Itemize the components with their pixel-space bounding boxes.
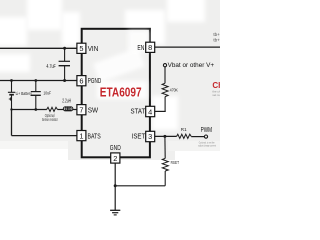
pin 7 box SW bbox=[77, 105, 86, 115]
node junction battery top bbox=[10, 79, 13, 82]
svg-text:RSET: RSET bbox=[171, 160, 180, 165]
pin 2 box GND bbox=[111, 153, 120, 163]
wire left vertical battery to BATS bbox=[11, 110, 13, 136]
svg-text:470K: 470K bbox=[170, 87, 179, 92]
wire PGND bus bbox=[0, 80, 77, 82]
node junction battery bottom bbox=[10, 108, 12, 110]
wire C1 top lead bbox=[64, 48, 66, 61]
pin 4 box STAT bbox=[146, 106, 155, 116]
svg-text:STAT: STAT bbox=[131, 106, 146, 115]
svg-text:R1: R1 bbox=[181, 127, 187, 133]
svg-text:GND: GND bbox=[110, 143, 121, 152]
svg-text:5: 5 bbox=[79, 44, 83, 53]
wire GND pin down bbox=[114, 163, 116, 186]
pin 5 box VIN bbox=[77, 43, 86, 53]
wire Vbat node to R2 bbox=[164, 67, 166, 83]
wire L1 to pin7 bbox=[73, 109, 77, 111]
svg-text:EN: EN bbox=[137, 43, 144, 52]
wire battery bottom lead bbox=[11, 95, 13, 110]
wire C2 bottom lead bbox=[35, 95, 37, 109]
node junction C1 top bbox=[63, 47, 66, 50]
svg-text:4.7uF: 4.7uF bbox=[46, 64, 55, 70]
wire BATS bus bbox=[12, 135, 77, 137]
wire ISET to R1 bbox=[155, 135, 177, 137]
wire C2 top lead bbox=[35, 81, 37, 92]
ground symbol bbox=[110, 210, 120, 215]
resistor RS optional sense bbox=[47, 107, 58, 111]
svg-text:Li+ Battery: Li+ Battery bbox=[16, 91, 33, 96]
wire RSET top lead bbox=[164, 136, 166, 158]
svg-text:PWM: PWM bbox=[201, 125, 212, 134]
svg-text:Vbat or other V+: Vbat or other V+ bbox=[168, 62, 215, 69]
battery BT1 Li+ Battery bbox=[8, 92, 15, 94]
node junction C2 top bbox=[34, 79, 37, 82]
node junction C1 bottom bbox=[63, 79, 66, 82]
wire battery top lead bbox=[11, 81, 13, 93]
svg-text:2: 2 bbox=[113, 154, 117, 163]
node Vbat terminal circle bbox=[163, 64, 166, 67]
svg-text:8: 8 bbox=[148, 43, 152, 52]
node junction RSET top bbox=[163, 135, 166, 138]
svg-text:3: 3 bbox=[148, 132, 152, 141]
wire VIN input bbox=[0, 47, 77, 49]
svg-text:Sense resistor: Sense resistor bbox=[42, 117, 58, 122]
wire ground stem bbox=[114, 186, 116, 210]
resistor R2 470K pullup bbox=[162, 83, 168, 96]
svg-text:VIN: VIN bbox=[88, 44, 99, 53]
label battery plus sign bbox=[9, 97, 12, 100]
svg-text:BATS: BATS bbox=[88, 131, 101, 140]
svg-text:6: 6 bbox=[79, 77, 83, 86]
svg-text:SW: SW bbox=[88, 105, 99, 114]
wire R2 to STAT bbox=[164, 97, 166, 112]
pin 3 box ISET bbox=[146, 131, 155, 141]
IC U1 ETA6097 body bbox=[82, 29, 150, 158]
resistor R1 bbox=[177, 134, 192, 138]
svg-text:set res: set res bbox=[212, 93, 220, 97]
node PWM terminal circle bbox=[204, 135, 207, 138]
svg-text:7: 7 bbox=[79, 106, 83, 115]
svg-text:4: 4 bbox=[148, 107, 152, 116]
wire STAT bbox=[155, 110, 166, 112]
svg-text:ISET: ISET bbox=[132, 131, 146, 140]
svg-text:10uF: 10uF bbox=[43, 91, 51, 96]
pin 6 box PGND bbox=[77, 76, 86, 86]
pin 1 box BATS bbox=[77, 131, 86, 141]
svg-text:ETA6097: ETA6097 bbox=[100, 85, 142, 99]
svg-text:PGND: PGND bbox=[88, 76, 102, 85]
capacitor C1 4.7uF bbox=[59, 61, 70, 65]
node junction C2 bottom bbox=[34, 108, 37, 111]
wire ground bus horizontal bbox=[115, 185, 165, 187]
inductor L1 2.2uH bbox=[63, 107, 72, 111]
svg-text:tb+: tb+ bbox=[213, 32, 220, 38]
svg-text:2.2uH: 2.2uH bbox=[62, 99, 71, 105]
resistor RSET bbox=[162, 158, 168, 171]
wire SW bus left bbox=[12, 109, 47, 111]
wire RSET bottom lead bbox=[164, 171, 166, 186]
capacitor C2 10uF bbox=[31, 92, 41, 96]
wire sense to L1 bbox=[58, 109, 64, 111]
wire C1 bottom lead bbox=[64, 66, 66, 81]
svg-text:1: 1 bbox=[79, 131, 83, 140]
wire R1 to PWM node bbox=[191, 136, 204, 138]
svg-text:adjust charge current: adjust charge current bbox=[198, 144, 216, 148]
node junction ground bus bbox=[114, 184, 117, 187]
pin 8 box EN bbox=[146, 42, 155, 52]
svg-text:tb+: tb+ bbox=[213, 38, 220, 44]
wire EN to right edge bbox=[155, 46, 220, 48]
